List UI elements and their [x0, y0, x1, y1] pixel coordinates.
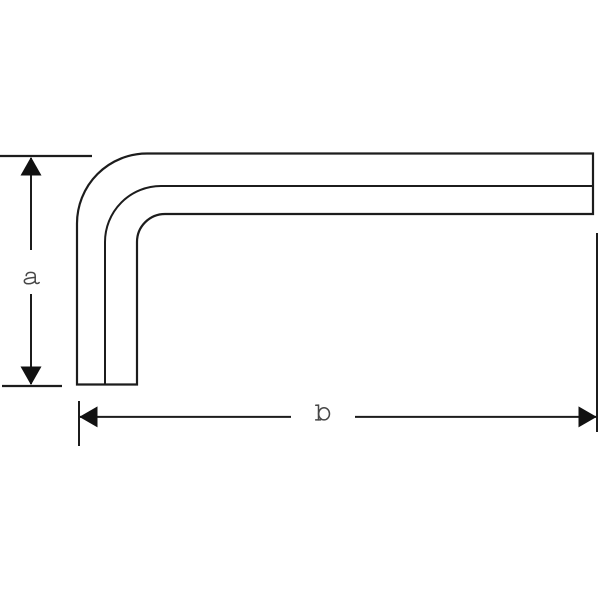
dimension a: vertical line upper segment — [30, 158, 32, 250]
label a — [24, 272, 39, 283]
dimension b: left arrowhead — [79, 406, 97, 427]
dimension a: vertical line lower segment — [30, 294, 32, 384]
hex key middle edge line — [105, 186, 593, 385]
dimension b: right extension line — [596, 233, 598, 432]
dimension b: line right segment — [355, 416, 596, 418]
label b — [316, 405, 330, 420]
dimension a: bottom extension line — [2, 385, 62, 387]
dimension b: right arrowhead — [579, 406, 597, 427]
dimension b: line left segment — [80, 416, 291, 418]
hex key outline (outer contour with rounded bend) — [77, 154, 593, 385]
dimension a: up arrowhead — [21, 157, 42, 176]
dimension b: left extension line — [78, 401, 80, 446]
dimension a: down arrowhead — [21, 367, 42, 386]
dimension a: top extension line — [0, 155, 92, 157]
